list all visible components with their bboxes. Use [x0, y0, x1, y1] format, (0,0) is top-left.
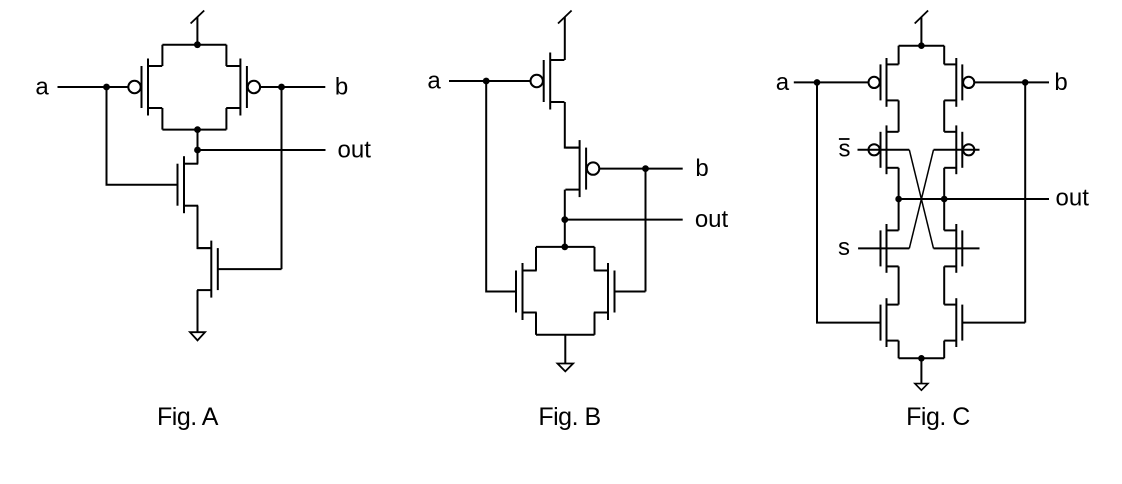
- wire M8 source drop: [594, 313, 596, 335]
- node VDD rail junction: [194, 41, 201, 48]
- wire VDD rail fig C: [899, 45, 945, 47]
- svg-text:b: b: [1054, 69, 1067, 96]
- wire a input fig B: [449, 80, 531, 82]
- svg-text:out: out: [338, 137, 372, 164]
- wire M6 drain to out: [564, 190, 566, 247]
- wire out fig C: [899, 198, 1049, 200]
- svg-text:Fig. A: Fig. A: [157, 403, 219, 431]
- wire a to NMOS M7 gate: [486, 81, 516, 292]
- transistor M2 PMOS right: [239, 59, 241, 116]
- wire a to NMOS M3 gate: [107, 87, 178, 185]
- wire M5 drain to M6 source: [565, 102, 580, 148]
- wire b to NMOS M15 gate: [1024, 82, 1026, 322]
- svg-text:b: b: [695, 155, 708, 182]
- svg-text:a: a: [35, 74, 49, 101]
- wire NMOS bottom rail fig B: [536, 334, 595, 336]
- power VDD slash fig B: [558, 11, 572, 24]
- wire cross diagonal s to right PMOS gate: [909, 150, 933, 249]
- svg-text:Fig. C: Fig. C: [906, 403, 970, 431]
- wire VDD stem fig C: [920, 17, 922, 46]
- transistor M14 NMOS right: [955, 224, 957, 273]
- wire right NMOS gate stub: [934, 247, 980, 249]
- node a junction fig B: [483, 78, 490, 85]
- wire a input fig C: [794, 81, 869, 83]
- svg-text:out: out: [1056, 185, 1090, 212]
- wire b to NMOS M4 gate: [281, 87, 283, 269]
- transistor M11 PMOS sbar left: [886, 125, 888, 174]
- power VDD slash fig C: [915, 11, 928, 24]
- power VDD slash: [191, 11, 205, 24]
- transistor M8 NMOS right: [607, 263, 609, 320]
- wire ground stem fig C: [920, 358, 922, 383]
- wire b input: [260, 86, 325, 88]
- svg-text:Fig. B: Fig. B: [538, 403, 600, 431]
- ground Fig C: [915, 384, 928, 391]
- wire VDD top rail: [162, 44, 226, 46]
- transistor M5 PMOS top: [549, 53, 551, 110]
- wire M13 drain up to out node: [898, 199, 900, 230]
- node out left junction fig C: [895, 196, 902, 203]
- node b junction fig B: [642, 165, 649, 172]
- wire M16 gate to b line: [962, 322, 1025, 324]
- wire drain to out node: [197, 130, 199, 150]
- transistor M3 NMOS: [183, 156, 185, 213]
- node NMOS rail junction fig B: [561, 244, 568, 251]
- wire rail drop left: [161, 45, 163, 66]
- wire M9 drain drop: [898, 100, 900, 131]
- wire out fig B: [565, 219, 683, 221]
- wire rail drop right fig B: [594, 247, 596, 271]
- svg-text:b: b: [335, 74, 348, 101]
- wire a to NMOS M12 gate: [817, 82, 881, 322]
- wire cross diagonal sbar to right NMOS gate: [909, 150, 933, 249]
- wire sbar to M11 gate through: [858, 149, 910, 151]
- transistor M9 PMOS a left: [886, 58, 888, 107]
- wire M10 drain drop: [943, 100, 945, 131]
- wire M7 source drop: [535, 313, 537, 335]
- wire NMOS top rail fig B: [536, 246, 595, 248]
- wire rail drop left fig C: [898, 46, 900, 65]
- svg-text:a: a: [427, 68, 441, 95]
- node PMOS drain junction: [194, 126, 201, 133]
- transistor M13 NMOS s left: [886, 224, 888, 273]
- wire M6 gate to b: [600, 168, 683, 170]
- wire b to NMOS M8 gate: [645, 169, 647, 292]
- ground Fig A: [190, 332, 205, 340]
- wire M4 source down: [197, 290, 199, 332]
- wire sbar overbar: [839, 138, 850, 140]
- wire M2 drain drop: [225, 108, 227, 130]
- transistor M7 NMOS left: [522, 263, 524, 320]
- node a junction: [103, 84, 110, 91]
- transistor M1 PMOS left: [147, 59, 149, 116]
- wire rail drop right fig C: [943, 46, 945, 65]
- wire M8 gate to b line: [615, 291, 646, 293]
- node a junction fig C: [814, 79, 821, 86]
- wire a input: [58, 86, 129, 88]
- transistor M6 PMOS: [579, 140, 581, 197]
- wire b input fig C: [974, 81, 1049, 83]
- wire right PMOS drain drop: [943, 168, 945, 199]
- wire M14 drain up to out node: [943, 199, 945, 230]
- wire M15 source drop: [898, 341, 900, 359]
- wire out node to M3 drain: [197, 150, 199, 164]
- wire VDD stem: [196, 17, 198, 45]
- wire ground rail fig C: [899, 357, 945, 359]
- wire s to M13 gate through: [858, 247, 909, 249]
- wire M13 source drop: [898, 266, 900, 304]
- wire M16 source drop: [943, 341, 945, 359]
- svg-text:a: a: [776, 69, 790, 96]
- node out junction fig B: [561, 216, 568, 223]
- node out right junction fig C: [941, 196, 948, 203]
- wire M3 source to M4 drain: [198, 206, 212, 248]
- wire out: [198, 149, 326, 151]
- wire rail drop right: [225, 45, 227, 66]
- wire VDD stem fig B: [564, 17, 566, 60]
- transistor M16 NMOS b right bottom: [955, 298, 957, 347]
- wire M1 drain drop: [161, 108, 163, 130]
- node VDD junction fig C: [918, 42, 925, 49]
- transistor M15 NMOS a left bottom: [886, 298, 888, 347]
- svg-text:out: out: [695, 206, 729, 233]
- wire M14 source drop: [943, 266, 945, 304]
- wire ground stem fig B: [564, 335, 566, 364]
- wire rail drop left fig B: [535, 247, 537, 271]
- wire M11 drain drop to out node: [898, 168, 900, 199]
- node b junction: [278, 84, 285, 91]
- node b junction fig C: [1022, 79, 1029, 86]
- transistor M12p PMOS right: [955, 125, 957, 174]
- ground Fig B: [558, 364, 574, 372]
- wire PMOS common drain rail: [162, 129, 226, 131]
- node out junction: [194, 147, 201, 154]
- wire right PMOS gate stub: [934, 149, 980, 151]
- wire M4 gate to b line: [218, 268, 281, 270]
- svg-text:s: s: [838, 234, 850, 261]
- transistor M4 NMOS: [210, 241, 212, 298]
- transistor M10 PMOS b right: [955, 58, 957, 107]
- node ground junction fig C: [918, 355, 925, 362]
